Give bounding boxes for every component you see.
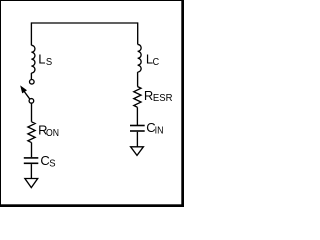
wire left vertical from top corner to LS xyxy=(30,22,32,45)
wire LS to switch top terminal xyxy=(30,73,32,79)
wire top horizontal xyxy=(31,22,137,24)
label RON xyxy=(38,123,59,139)
inductor LS xyxy=(31,45,35,73)
label LC xyxy=(146,52,160,69)
svg-text:R: R xyxy=(144,88,153,103)
resistor RESR xyxy=(134,87,141,108)
resistor RON xyxy=(28,122,35,143)
label RESR xyxy=(144,88,173,104)
capacitor CS top plate xyxy=(24,157,39,159)
switch top terminal circle xyxy=(30,80,35,85)
label CIN xyxy=(146,120,163,136)
svg-text:L: L xyxy=(38,51,45,66)
ground left xyxy=(25,179,38,188)
svg-text:C: C xyxy=(153,56,160,68)
svg-text:S: S xyxy=(46,56,52,68)
svg-text:ESR: ESR xyxy=(153,92,173,104)
label CS xyxy=(40,153,55,170)
border frame xyxy=(0,0,184,207)
inductor LC xyxy=(138,44,142,72)
wire LC to RESR xyxy=(137,72,139,86)
capacitor CIN bottom plate xyxy=(130,130,145,132)
wire CIN to ground xyxy=(136,132,138,147)
label LS xyxy=(38,51,52,68)
wire RESR to CIN xyxy=(136,107,138,125)
wire switch to RON xyxy=(31,103,33,122)
switch arrowhead xyxy=(20,85,27,93)
wire CS to ground xyxy=(30,164,32,178)
capacitor CIN top plate xyxy=(130,125,145,127)
capacitor CS bottom plate xyxy=(24,162,39,164)
wire RON to CS xyxy=(31,143,33,158)
svg-text:IN: IN xyxy=(155,124,164,136)
svg-text:ON: ON xyxy=(46,127,59,139)
switch bottom terminal circle xyxy=(29,99,34,104)
switch lever wire xyxy=(24,91,30,99)
svg-text:S: S xyxy=(49,157,55,169)
ground right xyxy=(131,147,144,156)
wire right vertical from top corner to LC xyxy=(137,22,139,44)
